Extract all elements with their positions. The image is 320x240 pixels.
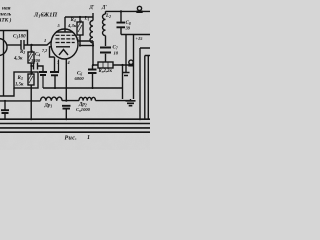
previous stage tube (cut by edge): [0, 39, 7, 56]
svg-text:1: 1: [44, 38, 46, 43]
wire R4/L1 bottom: [80, 45, 93, 47]
cap to bus left: [4, 101, 6, 110]
maze vertical to filament ground: [133, 35, 135, 100]
svg-text:Др1: Др1: [44, 104, 53, 109]
svg-text:L2: L2: [105, 14, 111, 19]
bus line 2: [0, 123, 150, 125]
wire R2 to R3: [30, 63, 32, 74]
svg-text:L1: L1: [84, 17, 90, 22]
junction filament left cap: [4, 100, 6, 102]
terminal post top right: [137, 6, 141, 10]
cathode lead wire: [50, 47, 55, 57]
resistor R2: [28, 52, 34, 63]
anode plate: [56, 17, 73, 32]
resistor R3: [28, 74, 34, 85]
choke Dr1: [41, 97, 63, 101]
op tube U1 envelope: [51, 29, 78, 59]
node A junction: [30, 44, 32, 46]
svg-text:Рис.: Рис.: [65, 136, 78, 142]
svg-text:7,2: 7,2: [42, 48, 47, 53]
node R5 left junction: [92, 64, 94, 66]
anode wire to top: [65, 13, 93, 17]
heater: [59, 50, 68, 56]
bus line 4: [0, 131, 150, 133]
svg-text:3300: 3300: [30, 58, 41, 63]
wire R3 to bus: [30, 85, 32, 119]
top output wire: [106, 10, 151, 12]
wire C3 to tube grid pin1: [24, 42, 51, 46]
svg-text:С3180: С3180: [13, 35, 26, 40]
ground return wire y=88: [43, 87, 123, 89]
inductor L1: [90, 17, 93, 46]
svg-text:Д': Д': [89, 6, 95, 11]
inductor L2: [102, 11, 105, 46]
svg-text:18: 18: [114, 51, 119, 56]
svg-text:+15: +15: [136, 36, 144, 41]
pin6 screen wire: [78, 41, 93, 65]
capacitor C6: [88, 70, 97, 74]
resistor R5: [93, 64, 129, 66]
bus junction dots: [30, 118, 32, 120]
antenna panel box bottom stub: [0, 88, 14, 96]
capacitor C4 tap wire: [31, 65, 33, 67]
cathode bypass cap C5: [54, 57, 56, 72]
svg-text:1: 1: [87, 135, 90, 141]
grid rows: [56, 35, 75, 42]
junction pin4: [65, 100, 67, 102]
capacitor C3: [21, 40, 24, 50]
ground at filament end: [130, 99, 132, 100]
capacitor C7: [100, 48, 111, 53]
C4 ground stub: [38, 66, 44, 72]
svg-text:Л16Ж1П: Л16Ж1П: [33, 12, 57, 19]
junction C8 tap: [120, 10, 122, 12]
right maze wire 2: [145, 56, 150, 120]
caption text top-left (cut off): [0, 6, 12, 24]
right maze wire 1: [140, 48, 150, 120]
svg-text:6800: 6800: [75, 76, 85, 81]
svg-text:1,5к: 1,5к: [15, 83, 24, 88]
svg-text:АТК ): АТК ): [0, 17, 12, 24]
capacitor C4: [34, 63, 38, 70]
wire node A down to R2: [30, 45, 32, 52]
right maze wire 3: [147, 56, 149, 120]
bus line 1: [0, 118, 150, 120]
right supply wire y=34.5: [121, 34, 150, 36]
svg-text:4,3к: 4,3к: [13, 57, 23, 62]
terminal post mid right: [129, 60, 133, 64]
ground bars under C4: [39, 72, 47, 75]
paper background: [0, 0, 150, 150]
capacitor C8: [117, 23, 126, 28]
wire grid input y=45: [7, 44, 22, 46]
svg-text:С4: С4: [35, 53, 40, 58]
choke Dr2: [79, 97, 96, 100]
wire R5 node down: [122, 65, 124, 99]
svg-text:39: 39: [125, 25, 131, 30]
svg-text:4,3к: 4,3к: [67, 23, 77, 28]
svg-text:R3: R3: [18, 76, 23, 81]
resistor R4: [79, 17, 81, 46]
capacitor C9: [62, 106, 71, 109]
cathode: [56, 46, 70, 48]
node R5 right junction: [121, 64, 123, 66]
heater pin4 wire: [65, 59, 67, 101]
filament line y=100.6: [0, 100, 131, 102]
svg-text:R2: R2: [20, 50, 25, 55]
box around R3: [14, 72, 38, 88]
bus line 3: [0, 127, 150, 129]
antenna panel box top edge: [0, 31, 28, 45]
junction R3 crossing: [30, 100, 32, 102]
C8 ground drop: [125, 35, 127, 73]
svg-text:R52,2к: R52,2к: [99, 69, 113, 74]
antenna panel box left edge: [3, 31, 5, 96]
svg-text:Д': Д': [101, 6, 107, 11]
junction R4 top: [79, 16, 81, 18]
